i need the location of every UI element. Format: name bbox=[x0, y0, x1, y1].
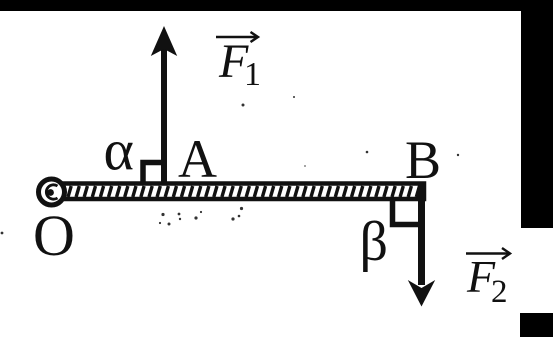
svg-text:α: α bbox=[104, 118, 134, 183]
label F1 vector arrow bbox=[216, 32, 258, 42]
label F2 vector arrow bbox=[466, 248, 510, 259]
bottom-right black scan block bbox=[520, 313, 553, 337]
top black scan band bbox=[0, 0, 553, 11]
force arrow F1 shaft bbox=[161, 47, 167, 183]
svg-text:2: 2 bbox=[491, 274, 508, 310]
pivot O (hinge circle) bbox=[39, 179, 65, 205]
svg-text:O: O bbox=[33, 203, 75, 268]
right angle mark at B bbox=[393, 201, 420, 225]
force arrow F2 shaft bbox=[418, 183, 425, 285]
force arrow F2 head bbox=[408, 280, 435, 307]
svg-text:A: A bbox=[178, 129, 217, 189]
right black scan column bbox=[521, 0, 553, 228]
rod hatching bbox=[68, 186, 420, 197]
svg-text:B: B bbox=[405, 130, 441, 190]
ink specks bbox=[1, 96, 460, 234]
svg-text:1: 1 bbox=[244, 56, 261, 93]
right angle mark at A bbox=[143, 163, 164, 184]
force arrow F1 head bbox=[151, 26, 177, 56]
svg-text:β: β bbox=[360, 211, 389, 273]
rod OB bbox=[58, 184, 424, 200]
